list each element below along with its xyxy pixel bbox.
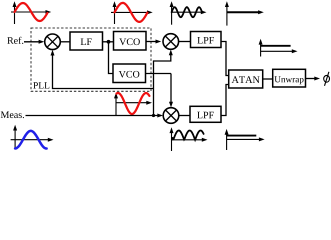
red sine wave [15, 3, 48, 21]
wire LPF1 to ATAN upper input [221, 42, 229, 76]
plot: Q channel DC (bottom-right) [225, 129, 265, 150]
y-axis [14, 5, 16, 25]
block ATAN [229, 70, 263, 88]
plot: VCO2 quadrature output (red inverted sine) [114, 93, 152, 115]
junction node dot [107, 40, 111, 44]
block VCO2 [113, 64, 146, 83]
label Meas. [1, 111, 24, 118]
wire VCO2 drop to mixer3 with arrow [170, 74, 172, 105]
wire Meas to mixer3 with arrow [26, 115, 161, 117]
block LPF2 [190, 106, 221, 122]
wire VCO1 to mixer2 with arrow [146, 41, 158, 43]
wire Meas branch up to mixer2 bottom with arrow [154, 53, 171, 116]
mixer M2 (I mixer) [163, 34, 179, 50]
plot: mixer2 product signal (black 2f wave) [170, 1, 207, 25]
plot: mixer3 product (rectified wave, bottom) [170, 127, 208, 151]
junction node on Meas wire [152, 114, 155, 117]
wire VCO2 output to vertical drop [146, 73, 172, 75]
plot: DC level above ATAN [259, 39, 298, 57]
label PLL [33, 82, 49, 88]
mixer M3 (Q mixer) [163, 108, 179, 124]
DC signal line [261, 45, 291, 47]
label phi output [324, 72, 330, 86]
block VCO1 [114, 32, 147, 51]
PLL dashed box [31, 28, 151, 91]
plot: measured signal (bottom-left blue sine) [11, 125, 54, 150]
wire LF to VCO1 [103, 41, 114, 43]
label Ref. [7, 37, 23, 44]
wire mixer2 to LPF1 [179, 41, 191, 43]
wire ATAN to Unwrap [263, 78, 273, 80]
wire LPF2 to ATAN lower input [221, 85, 229, 116]
block LPF1 [191, 32, 222, 48]
wire from junction down to VCO2 [109, 42, 114, 74]
wire feedback to mixer1 bottom with arrow [53, 53, 154, 89]
block Unwrap [273, 69, 306, 87]
wire Ref to mixer1 with arrow [24, 41, 41, 43]
mixer M1 (phase detector) [45, 34, 61, 50]
plot: reference signal (top-left red sine) [11, 1, 51, 24]
wire Unwrap to output phi with arrow [306, 78, 317, 80]
block LF (loop filter) [70, 32, 103, 50]
x-axis [11, 11, 48, 13]
wire mixer1 to LF [60, 41, 70, 43]
plot: VCO1 output (red sine above VCO1) [111, 1, 153, 24]
wire mixer3 to LPF2 [179, 115, 190, 117]
plot: I channel after LPF (top-right, zero DC) [225, 1, 264, 25]
